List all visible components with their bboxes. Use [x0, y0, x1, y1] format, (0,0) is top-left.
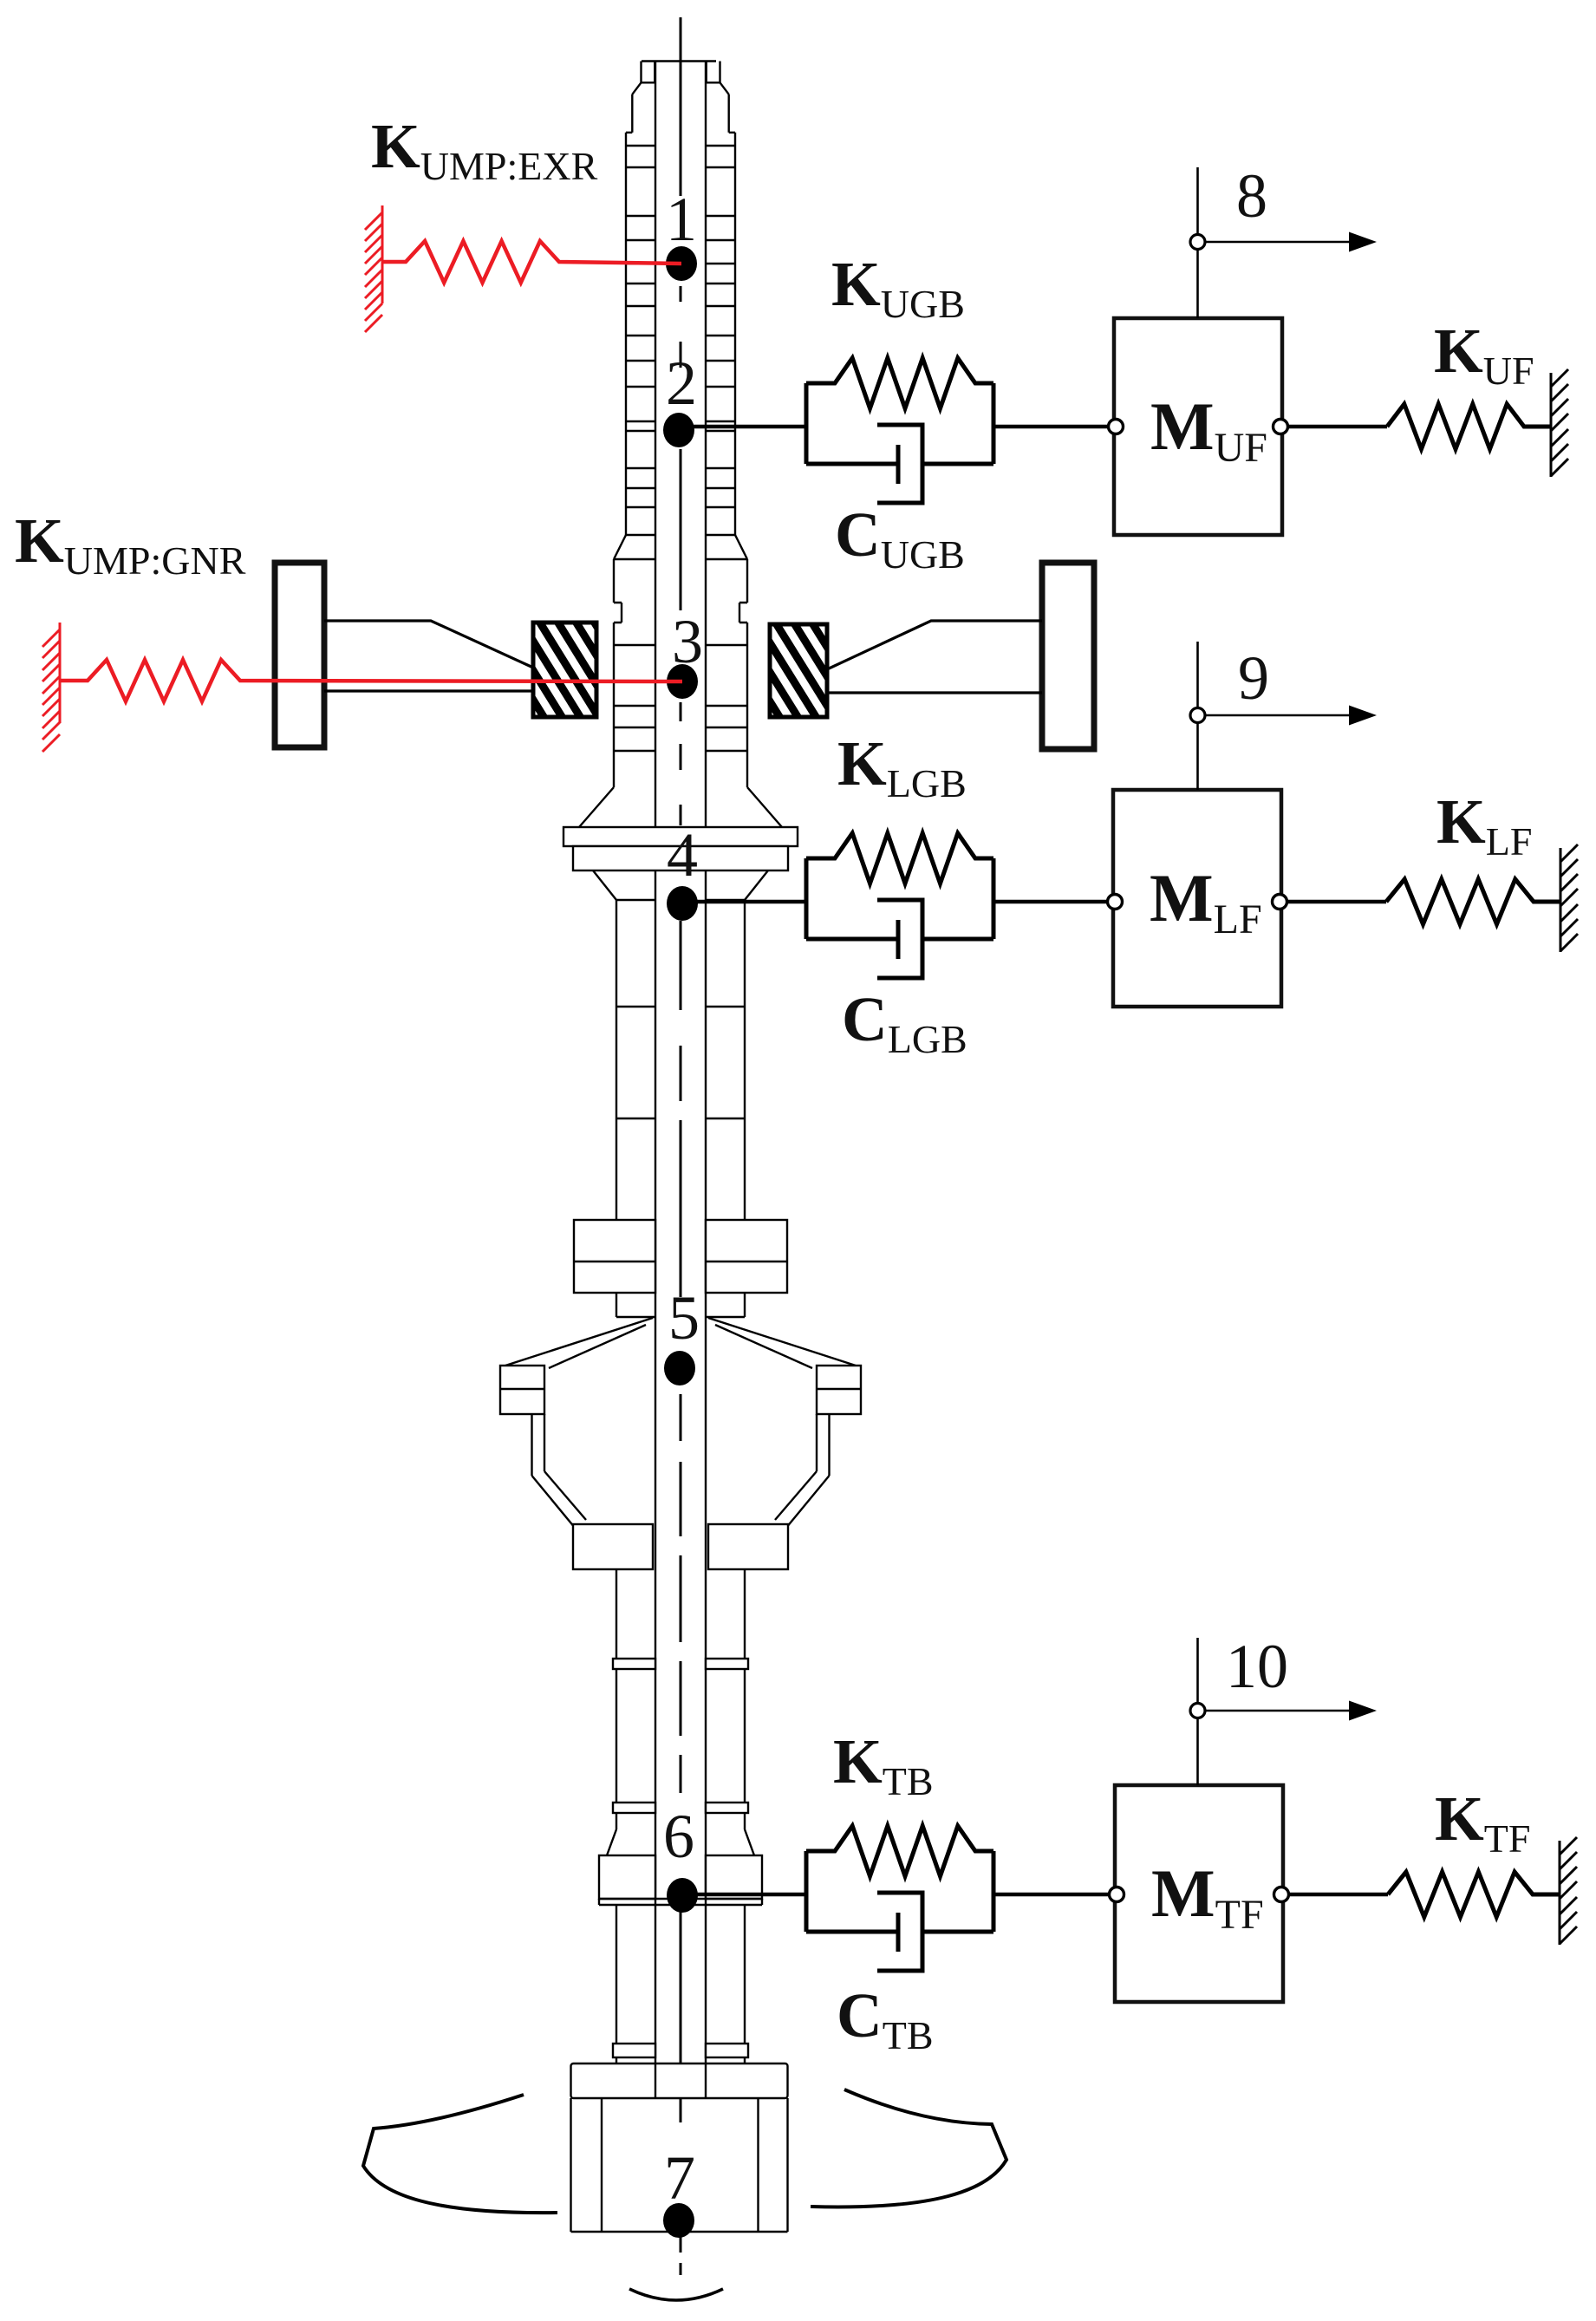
thrust-block collar above node 5: [574, 1220, 655, 1293]
svg-text:5: 5: [668, 1283, 700, 1353]
shaft wall tick lines, upper column: [626, 146, 735, 535]
wire node to bearing LGB: [682, 900, 806, 904]
node 4: [667, 886, 698, 921]
ground wall K_LF: [1560, 844, 1578, 952]
svg-text:9: 9: [1238, 643, 1269, 713]
damper C_LGB: [806, 920, 898, 959]
ground wall (red) for K_UMP:GNR: [42, 623, 60, 752]
svg-text:2: 2: [666, 349, 697, 418]
foundation spring K_TF: [1388, 1872, 1560, 1917]
svg-text:6: 6: [663, 1802, 694, 1871]
pin circle right M_LF: [1273, 895, 1287, 909]
wire node to bearing TB: [682, 1893, 806, 1897]
runner hub bulb (node 5): [505, 1318, 856, 1368]
pin circle left M_UF: [1109, 420, 1124, 434]
ground wall (red) for K_UMP:EXR: [365, 205, 382, 332]
generator core section rails: [614, 559, 747, 787]
node 2: [663, 413, 694, 447]
rotor spider arms left: [324, 621, 533, 691]
lower guide-bearing flange at node 4: [579, 787, 782, 827]
mass M_LF: [1113, 790, 1281, 1007]
wire bearing to mass: [993, 425, 1114, 429]
wire mass to foundation spring K_TF: [1289, 1893, 1388, 1897]
measurement point 9: [1196, 642, 1199, 790]
pin circle left M_TF: [1110, 1887, 1124, 1902]
node 7: [663, 2203, 694, 2238]
shaft mid column (between nodes 4 and 5): [616, 900, 745, 1220]
spring K_UMP:GNR (red): [60, 660, 682, 701]
shaft bottom column: [616, 1905, 745, 2063]
svg-text:1: 1: [666, 185, 697, 254]
mass M_UF: [1114, 318, 1282, 535]
node 6: [667, 1878, 698, 1913]
wire mass to foundation spring K_LF: [1287, 900, 1386, 904]
wire bearing to mass: [993, 1893, 1115, 1897]
shaft ring 1: [613, 1659, 655, 1669]
svg-text:8: 8: [1236, 161, 1267, 231]
spring K_LGB: [806, 833, 993, 883]
svg-text:7: 7: [664, 2143, 695, 2213]
svg-text:4: 4: [667, 820, 698, 890]
bearing parallel bracket LGB: [806, 858, 993, 939]
node 5: [664, 1351, 695, 1385]
wire bearing to mass: [993, 900, 1113, 904]
turbine guide-bearing collar at node 6: [599, 1855, 655, 1899]
turbine blade left: [363, 2095, 557, 2213]
water flow arc below runner: [629, 2289, 723, 2300]
shaft taper below node 2: [614, 535, 747, 559]
node 1: [666, 246, 697, 281]
bearing parallel bracket TB: [806, 1851, 993, 1932]
wire mass to foundation spring K_UF: [1288, 425, 1387, 429]
ground wall K_UF: [1551, 369, 1568, 477]
shaft upper journal (generator shaft top): [626, 62, 735, 2099]
damper C_UGB: [806, 445, 898, 484]
foundation spring K_LF: [1386, 879, 1560, 924]
shaft ring 2: [613, 1803, 655, 1813]
pin circle right M_TF: [1274, 1887, 1289, 1902]
svg-text:3: 3: [672, 607, 703, 676]
spring K_UGB: [806, 358, 993, 408]
bearing parallel bracket UGB: [806, 383, 993, 464]
spring K_TB: [806, 1826, 993, 1876]
ground wall K_TF: [1560, 1837, 1577, 1945]
damper C_TB: [806, 1913, 898, 1952]
generator rotor rim left: [275, 563, 324, 747]
spring K_UMP:EXR (red): [382, 241, 681, 283]
wire node to bearing UGB: [682, 425, 806, 429]
mass M_TF: [1115, 1785, 1283, 2002]
rotor spider arms right: [827, 621, 1042, 693]
svg-text:10: 10: [1226, 1632, 1288, 1701]
shaft centreline: [680, 17, 682, 2275]
measurement point 8: [1196, 167, 1199, 318]
turbine shaft column below node 5: [607, 1569, 754, 1855]
measurement point 10: [1196, 1638, 1199, 1785]
foundation spring K_UF: [1387, 404, 1551, 449]
generator rotor rim right: [1042, 563, 1094, 749]
turbine runner hub: [571, 2063, 788, 2098]
pin circle left M_LF: [1108, 895, 1123, 909]
node 3: [667, 664, 698, 699]
turbine blade right: [811, 2090, 1006, 2207]
pin circle right M_UF: [1274, 420, 1288, 434]
shaft ring 3: [613, 2044, 655, 2057]
